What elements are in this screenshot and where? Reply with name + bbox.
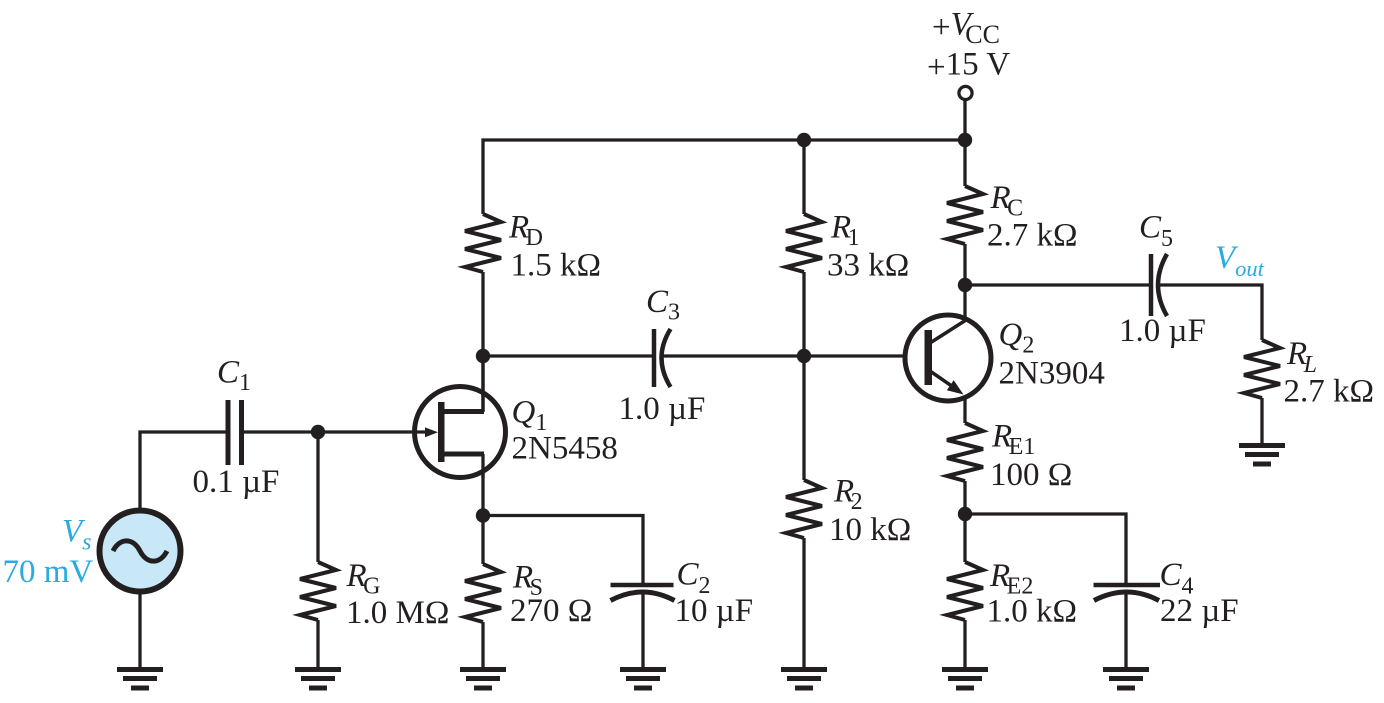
svg-text:1.5 kΩ: 1.5 kΩ — [511, 248, 602, 284]
ground RE2 — [942, 667, 988, 691]
svg-text:270 Ω: 270 Ω — [510, 593, 592, 629]
wire mid C3 row right to Q2 base — [663, 354, 905, 357]
svg-text:2.7 kΩ: 2.7 kΩ — [1284, 374, 1375, 410]
resistor RL — [1244, 340, 1280, 398]
wire RE1 bottom — [963, 481, 966, 514]
capacitor C5 — [1151, 254, 1167, 316]
svg-text:RD: RD — [508, 210, 543, 252]
wire mid C3 row left — [483, 354, 654, 357]
svg-text:R2: R2 — [833, 474, 863, 516]
ground RG — [295, 667, 341, 691]
svg-text:33 kΩ: 33 kΩ — [827, 248, 909, 284]
svg-text:2.7 kΩ: 2.7 kΩ — [987, 218, 1078, 254]
svg-text:2N3904: 2N3904 — [999, 356, 1105, 392]
ground C4 — [1103, 667, 1149, 691]
resistor RE2 — [947, 562, 983, 620]
ground C2 — [620, 667, 666, 691]
transistor Q1 — [415, 387, 506, 479]
node C1-RG junction — [311, 425, 325, 439]
wire RC bottom — [963, 244, 966, 285]
svg-text:1.0 µF: 1.0 µF — [1119, 313, 1206, 349]
svg-text:2N5458: 2N5458 — [512, 431, 618, 467]
wire RS bottom — [481, 622, 484, 667]
svg-text:+VCC: +VCC — [932, 7, 1000, 50]
capacitor C3 — [654, 329, 671, 387]
svg-text:RC: RC — [990, 180, 1024, 222]
node RE1-RE2-C4 junction — [958, 507, 972, 521]
wire RG bottom — [316, 620, 319, 667]
wire C5 to RL — [1160, 285, 1262, 340]
ground RL — [1239, 443, 1285, 467]
wire top rail — [483, 140, 965, 214]
transistor Q2 — [905, 315, 991, 401]
wire R2 bottom — [802, 538, 805, 667]
svg-text:10 kΩ: 10 kΩ — [829, 512, 911, 548]
wire R1 top — [802, 140, 805, 214]
capacitor C2 — [611, 585, 675, 601]
wire Vs top — [140, 432, 226, 509]
svg-text:RL: RL — [1286, 336, 1317, 378]
resistor R1 — [786, 214, 822, 272]
wire Q2 collector — [963, 285, 966, 320]
svg-text:C1: C1 — [217, 355, 251, 397]
svg-text:C5: C5 — [1139, 210, 1173, 253]
node R1-R2-base junction — [797, 349, 811, 363]
ground R2 — [781, 667, 827, 691]
wire Q2 emitter — [963, 396, 966, 423]
node junction top RC — [958, 133, 972, 147]
capacitor C4 — [1094, 585, 1161, 601]
svg-text:R1: R1 — [830, 210, 860, 252]
wire RE junction to C4 — [965, 514, 1126, 586]
resistor RC — [947, 186, 983, 244]
ground Vs — [117, 667, 163, 691]
svg-text:Vs: Vs — [62, 514, 92, 556]
svg-text:RG: RG — [346, 558, 381, 600]
svg-text:1.0 MΩ: 1.0 MΩ — [346, 595, 449, 631]
wire R2 top — [802, 356, 805, 480]
node RD-C3 junction — [476, 349, 490, 363]
wire source to C2 — [483, 516, 643, 587]
wire C4 bottom — [1124, 594, 1127, 667]
wire collector node to C5 — [965, 283, 1151, 286]
resistor R2 — [786, 480, 822, 538]
svg-text:C3: C3 — [646, 284, 680, 326]
wire Q1 drain — [481, 356, 484, 396]
resistor RG — [300, 562, 336, 620]
wire RE2 bottom — [963, 620, 966, 667]
wire C2 bottom — [641, 594, 644, 667]
VCC terminal — [959, 86, 972, 99]
svg-text:RE1: RE1 — [991, 419, 1035, 461]
capacitor C1 — [228, 400, 242, 465]
wire RE2 top — [963, 514, 966, 562]
svg-text:100 Ω: 100 Ω — [990, 457, 1072, 493]
node collector junction — [958, 278, 972, 292]
svg-text:Vout: Vout — [1215, 240, 1265, 281]
resistor RD — [465, 214, 501, 272]
ground RS — [460, 667, 506, 691]
wire VCC stub — [963, 98, 966, 186]
resistor RE1 — [947, 423, 983, 481]
svg-text:10 µF: 10 µF — [675, 593, 754, 629]
voltage source Vs — [100, 511, 181, 592]
wire C1 to gate — [244, 430, 426, 433]
svg-text:1.0 kΩ: 1.0 kΩ — [987, 594, 1078, 630]
svg-text:0.1 µF: 0.1 µF — [193, 464, 280, 500]
node junction top R1 — [797, 133, 811, 147]
node source-RS-C2 junction — [476, 508, 490, 522]
svg-text:22 µF: 22 µF — [1160, 593, 1239, 629]
wire R1 bottom — [802, 272, 805, 356]
svg-text:70 mV: 70 mV — [3, 554, 94, 590]
wire RD bottom — [481, 272, 484, 412]
svg-text:Q2: Q2 — [999, 317, 1035, 359]
svg-text:1.0 µF: 1.0 µF — [619, 391, 706, 427]
wire RG top — [316, 432, 319, 562]
svg-text:+15 V: +15 V — [927, 47, 1010, 86]
wire Vs bottom — [138, 593, 141, 667]
wire Q1 source — [481, 470, 484, 564]
wire RL bottom — [1260, 398, 1263, 445]
resistor RS — [465, 564, 501, 622]
